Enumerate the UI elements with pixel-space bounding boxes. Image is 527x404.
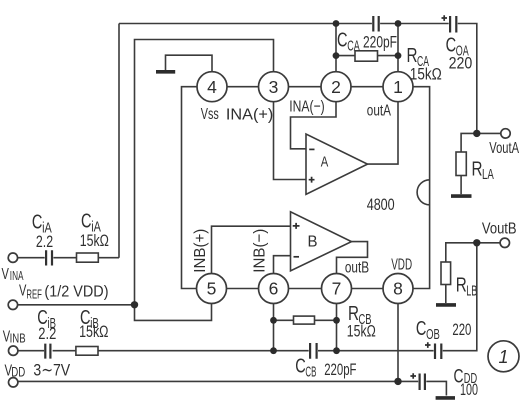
pin 8 [383,274,413,304]
wire outA from op-amp A apex to pin1 [368,102,399,164]
svg-text:3∼7V: 3∼7V [33,361,70,380]
label INA(+) pin3 [226,107,273,124]
svg-text:LA: LA [482,167,494,183]
wire INA(+) from pin3 to op-amp A non-inverting input [274,102,307,180]
minus sign op-amp A [309,148,314,150]
wire VINB input row [18,350,44,352]
svg-text:INB(−): INB(−) [252,229,269,273]
label B of op-amp B [308,234,318,251]
capacitor CDD 100 plates [420,374,425,391]
resistor RCB 15k feedback row [274,316,337,324]
wire INB(+) from pin5 to op-amp B [212,226,291,273]
label CCA [337,30,360,55]
terminal VINB [9,346,18,355]
label VDD pin8 [391,256,412,273]
label A of op-amp A [321,155,329,171]
svg-text:outA: outA [367,103,391,120]
wire CCB to COB [318,350,434,352]
svg-text:15kΩ: 15kΩ [347,322,376,341]
label RCA [407,45,430,70]
pin 5 [197,274,227,304]
svg-text:220: 220 [452,320,471,339]
label outA pin1 [367,103,391,120]
plus sign op-amp A [309,177,315,183]
label CiA second [81,211,101,236]
svg-text:OB: OB [426,327,440,343]
svg-text:CB: CB [305,365,316,381]
svg-text:1: 1 [498,347,508,367]
resistor CiA 15k box [77,253,99,262]
svg-text:Vss: Vss [201,106,219,123]
terminal VINA [8,253,17,262]
wire top rail from VINA riser to CCA left plate [119,23,372,25]
label CiB first [37,307,56,332]
resistor RLB box [441,262,451,285]
label VoutB [482,221,517,238]
junction node CCB left [270,347,277,354]
label CiB second [80,307,99,332]
svg-text:5: 5 [207,279,217,299]
pin 3 [259,72,289,102]
pin 2 [321,72,351,102]
junction node VREF [131,301,138,308]
svg-text:7: 7 [332,279,342,299]
label outB pin7 [345,260,369,277]
svg-text:VDD: VDD [391,256,412,273]
svg-text:C: C [32,212,43,234]
wire VoutA node to terminal [477,132,501,134]
wire VINA input row [18,257,45,259]
label 220 of COB [452,320,471,339]
plus sign of CDD [410,373,416,379]
svg-text:LB: LB [466,283,477,299]
label VoutA [489,140,519,157]
terminal VREF [8,300,17,309]
plus sign of COB [425,342,431,348]
label 220pF of CCA [363,33,397,52]
svg-text:15kΩ: 15kΩ [80,231,109,250]
svg-text:CA: CA [347,39,360,55]
wire CiA cap to resistor [53,257,76,259]
terminal VoutA [501,129,510,138]
label 15k of CiB [79,322,108,341]
svg-text:INB(+): INB(+) [192,229,209,273]
junction node RCA right [395,52,402,59]
figure number 1 circle [488,341,519,372]
svg-text:3: 3 [269,77,279,97]
wire CiA resistor to riser [98,257,119,259]
svg-text:220: 220 [449,54,473,73]
svg-text:B: B [308,234,318,251]
wire from COA to VoutA node [458,24,477,134]
wire COB to VoutB node [443,243,477,351]
wire VINA riser vertical [118,24,120,258]
junction node VoutB [473,239,480,246]
pin 7 [322,274,352,304]
junction node top rail at pin1 [395,20,402,27]
wire RLB to ground [445,285,447,304]
svg-text:4800: 4800 [367,195,395,214]
svg-text:REF: REF [26,287,42,301]
wire VREF input to junction [18,304,135,306]
wire pin6 column down [273,304,275,351]
label 15k of CiA [80,231,109,250]
label RCB [348,303,372,328]
label INB(+) pin5 rotated [192,229,209,273]
label 15k of RCA [410,65,442,84]
junction node VoutA [473,130,480,137]
svg-text:DD: DD [11,364,25,379]
pin 4 [197,72,227,102]
wire pin1 column to top rail [397,24,399,72]
svg-text:C: C [337,30,348,52]
wire VDD rail [18,380,419,382]
junction node RCB left [270,317,277,324]
svg-text:220pF: 220pF [324,360,356,379]
wire VINB row to CCB [98,350,309,352]
label RLA [472,159,495,184]
wire VoutB node to terminal [477,242,500,244]
label VREF (1/2 VDD) [19,283,109,302]
capacitor CiA 2.2 plates [46,250,52,265]
ground bar under CDD [436,396,455,400]
IC 4800 body outline [182,87,430,289]
ground wire to pin 4 [166,55,213,71]
svg-text:INA: INA [10,268,24,283]
label RLB [456,275,478,300]
svg-text:R: R [456,275,467,297]
wire pin8 column down to VDD rail [397,304,399,382]
label INA(-) pin2 [289,99,324,116]
svg-text:INB: INB [10,330,26,345]
label 220pF of CCB [324,360,356,379]
label 100 of CDD [460,380,478,399]
svg-text:C: C [81,211,92,233]
svg-text:(1/2 VDD): (1/2 VDD) [44,284,108,301]
label Vss pin4 [201,106,219,123]
svg-text:INA(+): INA(+) [226,107,273,124]
svg-text:VoutB: VoutB [482,221,517,238]
capacitor CiB 2.2 plates [45,344,50,359]
wire VoutA node to RLA [461,133,477,152]
junction node RCB right [333,317,340,324]
svg-text:2.2: 2.2 [38,324,56,343]
wire CiB cap to resistor [53,350,76,352]
plus sign of COA [442,15,448,21]
capacitor CCA 220pF plates [373,16,378,32]
wire VREF rail to INA(+) [135,40,274,305]
pin 6 [259,274,289,304]
svg-text:2: 2 [331,77,341,97]
svg-text:4: 4 [207,77,217,97]
junction node RCA left [333,52,340,59]
label VINB [3,329,26,346]
junction node CCB right [333,347,340,354]
resistor RCA 15k feedback row [336,51,398,61]
terminal VDD [9,378,18,387]
svg-text:2.2: 2.2 [36,232,53,251]
ground bar under RLA [451,194,472,198]
resistor CiB 15k box [76,347,98,356]
ground bar top-left [156,70,175,74]
junction node top rail at pin2 [333,20,340,27]
svg-text:220pF: 220pF [363,33,397,52]
wire bias from VREF junction to pin5 [135,304,212,321]
svg-text:15kΩ: 15kΩ [79,322,108,341]
label VDD supply [5,363,26,380]
label CiA first [32,212,52,237]
capacitor COB 220 plates [435,344,441,360]
wire outB from op-amp B apex to pin7 [337,242,368,274]
wire pin2 column to top rail [335,24,337,72]
label CCB [295,356,316,381]
svg-text:C: C [295,356,306,378]
label 4800 [367,195,395,214]
label INB(-) pin6 rotated [252,229,269,273]
capacitor CCB 220pF plates [310,343,317,359]
svg-text:100: 100 [460,380,478,399]
svg-text:C: C [416,318,427,340]
ground bar under RLB [436,303,456,307]
svg-text:VoutA: VoutA [489,140,519,157]
wire INB(-) from pin6 to op-amp B [274,256,291,274]
label 2.2 of CiA [36,232,53,251]
wire RLA to ground [460,176,462,195]
svg-text:6: 6 [269,279,279,299]
svg-text:1: 1 [393,77,403,97]
svg-text:V: V [2,266,10,283]
svg-text:8: 8 [393,279,403,299]
label 3~7V [33,361,70,380]
label 220 of COA [449,54,473,73]
label 2.2 of CiB [38,324,56,343]
wire VoutB node to RLB [446,243,477,262]
resistor RLA box [456,152,466,176]
wire pin7 column down [336,304,338,351]
wire CDD to ground [426,381,446,395]
op-amp B triangle [291,212,352,271]
plus sign op-amp B [293,223,300,229]
svg-text:outB: outB [345,260,369,277]
label VINA [2,266,24,283]
svg-text:R: R [472,159,483,181]
pin 1 [383,72,413,102]
minus sign op-amp B [294,256,300,258]
junction node VDD at pin8 [394,378,401,385]
svg-text:15kΩ: 15kΩ [410,65,442,84]
terminal VoutB [500,238,509,247]
op-amp A triangle [306,134,368,194]
svg-text:A: A [321,155,329,171]
wire between CCA and COA on top rail [380,23,449,25]
label COA [446,35,469,60]
svg-text:INA(−): INA(−) [289,99,324,116]
label COB [416,318,440,343]
capacitor COA 220 plates [450,16,456,33]
label CDD [454,367,478,388]
wire INA(-) from pin2 to op-amp A inverting input [291,102,337,149]
label 15k of RCB [347,322,376,341]
